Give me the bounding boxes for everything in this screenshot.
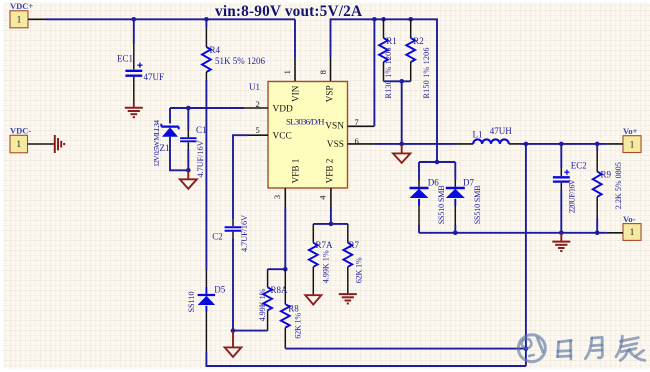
label L1	[473, 130, 483, 140]
label 47UF	[144, 72, 165, 82]
ground (earth) below R7	[339, 293, 357, 304]
diode D6 SS510	[410, 162, 429, 233]
label R8	[288, 303, 299, 313]
wire Z1 top lead	[169, 108, 171, 124]
value SS510 SMB D7	[473, 185, 482, 225]
wire VFB2 across	[313, 223, 348, 225]
pin 7 of U1 (VSN)	[348, 125, 375, 127]
pin 4 of U1 (VFB2)	[330, 188, 332, 207]
value 47UH	[490, 126, 512, 136]
pin name VDD	[273, 104, 294, 114]
svg-text:R9: R9	[601, 170, 612, 180]
label EC2	[571, 160, 587, 170]
port Vo-	[623, 224, 641, 241]
node FB riser at upper return	[524, 346, 529, 351]
watermark character YUE	[585, 337, 602, 358]
node Vout at EC2	[559, 142, 564, 147]
ground (earth, rotated) at VDC-	[55, 135, 64, 153]
pin number 2	[255, 99, 259, 109]
label D5	[214, 284, 225, 294]
svg-text:SS510 SMB: SS510 SMB	[473, 185, 482, 225]
svg-text:1: 1	[630, 140, 635, 150]
svg-text:1: 1	[16, 140, 21, 150]
svg-text:4.7UF/16V: 4.7UF/16V	[196, 140, 205, 177]
wire VFB2 from pin 4	[330, 207, 332, 224]
node R1R2 bottom	[399, 79, 404, 84]
pin of port Vo+	[607, 143, 623, 145]
svg-text:SS510 SMB: SS510 SMB	[437, 185, 446, 225]
wire freewheel top	[419, 161, 455, 163]
svg-text:VIN: VIN	[290, 85, 300, 102]
pin 6 of U1 (VSS)	[348, 143, 376, 145]
svg-text:2.2K 5% 0805: 2.2K 5% 0805	[614, 162, 623, 209]
label U1	[249, 82, 260, 92]
pin name VCC	[273, 132, 292, 142]
pin 1 of U1 (VIN)	[294, 57, 296, 82]
pin of port Vo-	[607, 232, 623, 234]
resistor R9 2.2K	[593, 144, 602, 233]
ground (arrow) below VSS node	[393, 144, 410, 163]
svg-text:R8: R8	[288, 303, 299, 313]
port VDC-	[10, 135, 28, 153]
node VSS at R1R2 riser	[399, 142, 404, 147]
label R8A	[271, 285, 289, 295]
svg-text:EC1: EC1	[117, 54, 133, 64]
ground (arrow) below C2	[225, 331, 242, 357]
pin name VIN	[290, 85, 300, 102]
resistor R2 R150	[406, 19, 415, 81]
port label VDC-	[10, 126, 31, 136]
pin number 4	[318, 195, 328, 200]
diode D7 SS510	[446, 162, 465, 233]
svg-text:8: 8	[318, 70, 328, 74]
svg-text:U1: U1	[249, 82, 260, 92]
svg-text:VDC-: VDC-	[10, 126, 31, 136]
wire R1R2 to VSS	[401, 81, 403, 144]
pin of L1 right	[509, 143, 520, 145]
resistor R7 62K	[343, 224, 352, 293]
svg-text:L1: L1	[473, 130, 483, 140]
node return at D7	[453, 231, 458, 236]
value 220UF/16V	[568, 179, 577, 213]
svg-text:C2: C2	[212, 232, 223, 242]
ground (arrow) below R7A	[305, 295, 321, 305]
wire VFB1 from pin 3	[284, 207, 286, 269]
svg-text:R150 1% 1206: R150 1% 1206	[422, 48, 431, 99]
label EC1	[117, 54, 133, 64]
pin 8 of U1 (VSP)	[330, 57, 332, 82]
svg-text:vin:8-90V vout:5V/2A: vin:8-90V vout:5V/2A	[215, 3, 362, 20]
svg-text:12V 0.5W MLL34: 12V 0.5W MLL34	[152, 120, 161, 167]
value 4.99K 1% R8A	[258, 288, 267, 321]
wire R1-R2 bottom join	[384, 80, 411, 82]
node VDD at C1	[186, 106, 191, 111]
wire R8A bottom to C2 node	[233, 330, 268, 332]
svg-text:R4: R4	[210, 45, 221, 55]
port label VDC+	[10, 1, 33, 11]
svg-text:R7A: R7A	[316, 240, 334, 250]
svg-text:4.99K 1%: 4.99K 1%	[321, 250, 330, 283]
wire VIN riser to pin 1	[294, 19, 296, 57]
value SS510 SMB D6	[437, 185, 446, 225]
label D7	[463, 178, 474, 188]
resistor R1 R130	[379, 19, 388, 81]
value 4.7UF/16V C2	[240, 215, 249, 252]
value 4.7UF/16V C1	[196, 140, 205, 177]
value 62K 1% R7	[355, 257, 364, 283]
pin number 8	[318, 70, 328, 74]
pin name VFB 2	[325, 158, 335, 183]
wire VDD pin 2	[170, 107, 244, 109]
capacitor C2 4.7UF	[225, 219, 242, 239]
value SS110	[187, 291, 196, 312]
wire C2 bottom	[232, 239, 234, 331]
node VFB2 split	[329, 222, 334, 227]
wire R4 top lead	[205, 19, 207, 27]
label Z1	[160, 143, 170, 153]
title vin:8-90V vout:5V/2A	[215, 3, 362, 20]
svg-text:C1: C1	[196, 125, 207, 135]
pin name VFB 1	[290, 158, 300, 183]
node return at R9	[595, 231, 600, 236]
resistor R8 62K	[281, 269, 290, 348]
svg-text:R1: R1	[386, 36, 397, 46]
ground (earth) below EC1	[125, 103, 143, 118]
svg-text:VSP: VSP	[325, 85, 335, 102]
wire VCC pin 5	[233, 135, 248, 219]
pin of port VDC-	[28, 143, 55, 145]
label R7	[349, 240, 360, 250]
svg-text:VCC: VCC	[273, 132, 292, 142]
pin 2 of U1 (VDD)	[244, 107, 268, 109]
label R2	[413, 36, 424, 46]
svg-text:4.99K 1%: 4.99K 1%	[258, 288, 267, 321]
port label Vo-	[623, 214, 636, 224]
label R4	[210, 45, 221, 55]
wire feedback riser	[525, 144, 527, 366]
svg-text:VDD: VDD	[273, 104, 294, 114]
port VDC+	[10, 11, 28, 28]
svg-text:VFB 2: VFB 2	[325, 158, 335, 183]
svg-text:R7: R7	[349, 240, 360, 250]
wire Z1 bottom lead	[170, 137, 188, 171]
svg-text:47UF: 47UF	[144, 72, 165, 82]
pin name VSP	[325, 85, 335, 102]
svg-text:4.7UF/16V: 4.7UF/16V	[240, 215, 249, 252]
node Z1-C1 ground	[186, 168, 191, 173]
diode D5 SS110	[198, 270, 216, 352]
wire VSP net top	[331, 19, 438, 162]
port label Vo+	[623, 126, 638, 136]
capacitor EC1 47UF	[125, 44, 142, 103]
label D6	[428, 178, 439, 188]
node VIN at EC1	[132, 17, 137, 22]
svg-text:SS110: SS110	[187, 291, 196, 312]
node VSP at R1	[381, 17, 386, 22]
svg-text:SL3036/D/H: SL3036/D/H	[286, 116, 325, 126]
ground (arrow) below C1	[180, 170, 197, 189]
pin number 5	[255, 125, 259, 135]
pin of port VDC+	[28, 18, 46, 20]
pin number 7	[355, 117, 359, 127]
pin number 3	[272, 195, 282, 199]
node VFB1 split	[283, 267, 288, 272]
svg-text:51K 5% 1206: 51K 5% 1206	[215, 56, 265, 66]
value 4.99K 1% R7A	[321, 250, 330, 283]
svg-text:62K 1%: 62K 1%	[294, 313, 303, 339]
op-amp U1 SL3036/D/H body	[268, 82, 348, 189]
wire VIN net top	[46, 18, 295, 20]
node Vout at R9	[595, 142, 600, 147]
svg-text:VSS: VSS	[327, 140, 344, 150]
resistor R4 51K	[202, 27, 211, 80]
label C2	[212, 232, 223, 242]
svg-text:Vo+: Vo+	[623, 126, 638, 136]
capacitor C1 4.7UF	[180, 108, 196, 170]
svg-text:62K 1%: 62K 1%	[355, 257, 364, 283]
wire EC1 top lead	[133, 19, 135, 44]
svg-text:1: 1	[630, 228, 635, 238]
node VSP at VSN riser	[372, 17, 377, 22]
value 2.2K 5% 0805	[614, 162, 623, 209]
wire upper return	[285, 348, 526, 350]
svg-text:VFB 1: VFB 1	[290, 158, 300, 183]
pin of L1 left	[455, 143, 473, 145]
label R9	[601, 170, 612, 180]
pin number 1	[282, 70, 292, 74]
pin 3 of U1 (VFB1)	[284, 188, 286, 207]
label 51K 5% 1206	[215, 56, 265, 66]
label C1	[196, 125, 207, 135]
svg-text:1: 1	[282, 70, 292, 74]
diode Z1 zener 12V	[161, 124, 178, 137]
node switch at D6D7 top	[435, 160, 440, 165]
wire output return bottom	[419, 232, 607, 234]
wire R4 to D5 (crosses VDD wire)	[205, 80, 207, 270]
watermark character RI	[558, 340, 572, 359]
value R130 1% 1206	[384, 48, 393, 99]
watermark character CHEN	[616, 336, 645, 360]
svg-text:EC2: EC2	[571, 160, 587, 170]
svg-text:220UF/16V: 220UF/16V	[568, 179, 577, 213]
resistor R8A 4.99K	[263, 269, 272, 330]
resistor R7A 4.99K	[309, 224, 318, 295]
node C2 ground	[231, 328, 236, 333]
label R7A	[316, 240, 334, 250]
value 62K 1% R8	[294, 313, 303, 339]
node Vout at FB riser	[524, 142, 529, 147]
ground (earth) below EC2	[552, 233, 570, 251]
svg-text:1: 1	[17, 16, 22, 26]
pin 5 of U1 (VCC)	[248, 134, 268, 136]
svg-text:Z1: Z1	[160, 143, 170, 153]
value 12V 0.5W MLL34	[152, 120, 161, 167]
wire D5 to lower return	[206, 352, 526, 366]
wire jog to R8A	[268, 268, 286, 270]
pin name VSS	[327, 140, 344, 150]
label R1	[386, 36, 397, 46]
pin number 6	[355, 136, 359, 146]
port Vo+	[623, 136, 641, 153]
value R150 1% 1206	[422, 48, 431, 99]
pin name VSN	[325, 122, 344, 132]
svg-text:5: 5	[255, 125, 259, 135]
svg-text:R2: R2	[413, 36, 424, 46]
inductor L1 47UH	[473, 139, 509, 143]
wire VSS to L1	[375, 143, 455, 145]
svg-text:VSN: VSN	[325, 122, 344, 132]
svg-text:Vo-: Vo-	[623, 214, 636, 224]
svg-text:3: 3	[272, 195, 282, 199]
svg-text:47UH: 47UH	[490, 126, 512, 136]
svg-text:D5: D5	[214, 284, 225, 294]
node VSP at R2	[408, 17, 413, 22]
chip value SL3036/D/H	[286, 116, 325, 126]
watermark logo circle	[518, 335, 545, 362]
svg-text:VDC+: VDC+	[10, 1, 33, 11]
capacitor EC2 220UF	[553, 144, 570, 233]
node VIN at R4	[204, 17, 209, 22]
wire VSN to VSP rail	[373, 19, 375, 126]
wire L1 to Vo+	[520, 143, 607, 145]
node return at EC2	[559, 231, 564, 236]
svg-text:R130 1% 1206: R130 1% 1206	[384, 48, 393, 99]
